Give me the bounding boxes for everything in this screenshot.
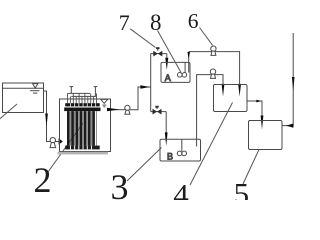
wire tank1 outlet [44,91,51,142]
tank B [160,139,201,161]
electrode clamp bar upper [65,103,100,106]
stirrer tank B [177,151,182,156]
wire valve down into tank B [165,112,167,133]
tank 1 water level symbol [33,84,38,89]
wire pump to cell [56,141,60,143]
svg-text:4: 4 [173,177,189,200]
riser pipe [150,54,152,112]
pump P2 [125,105,130,110]
svg-text:7: 7 [119,10,130,35]
terminal post left [70,87,72,94]
electrode plates [67,111,95,146]
leader line label 8 [158,31,182,73]
leader line label 3 [127,148,162,182]
stirrer shaft tank B [181,139,183,151]
bus bar lower [71,95,96,97]
bus bar upper [68,92,91,94]
suction pipe tank A [188,52,190,73]
flow arrow into tank 4 left [222,84,225,97]
flow arrow right [256,100,261,103]
leader line label 1 (cropped) [0,104,17,120]
svg-text:6: 6 [188,9,199,33]
external feed pipe [282,33,293,126]
tank A [161,62,190,82]
flow arrow into tank B [165,132,168,146]
stirrer tank A [178,73,183,78]
electrode clamp bar lower [64,108,100,112]
leader line label 4 [190,103,233,186]
flow arrow into tank A [165,58,168,70]
wire tank4 to tank5 [247,101,262,116]
flow arrow down on feed pipe [292,77,295,91]
wire riser to valve B [151,111,167,113]
pump P1 [50,138,55,143]
membrane separators [70,111,96,146]
electrode hanger wires [68,93,97,103]
tank 1 water level line [3,87,44,89]
flow arrow into cell 2 [59,138,63,145]
suction pipe tank B to pump [197,75,223,147]
valve V7 [153,51,158,57]
leader line label 5 [243,150,259,185]
cell 2 water level symbol [101,99,108,103]
pump P6 [211,46,216,51]
leader line label 2 [48,123,83,172]
leader line label 6 [200,28,213,46]
svg-text:5: 5 [234,176,250,200]
svg-text:8: 8 [150,10,162,35]
flow arrow left into tank 5 [286,124,293,128]
pump P9 [210,69,215,74]
flow arrow down on tank1 outlet [45,114,48,128]
cell bottom shadow [58,152,109,155]
wire riser to valve 7 [151,53,167,55]
svg-text:3: 3 [111,167,129,200]
tank 4 [214,85,248,112]
svg-text:2: 2 [34,160,52,200]
svg-text:B: B [167,152,173,162]
flow arrow into tank 4 right [238,84,241,97]
electrolysis cell tank 2 [60,99,111,152]
wire cell 2 outlet [111,109,126,111]
leader line label 7 [130,29,155,48]
wire pump6 line [189,52,240,85]
wire pump P2 to riser [130,87,151,110]
tank 5 [249,121,283,150]
flow arrow into tank 5 [261,116,264,130]
terminal post right [94,87,96,97]
wire valve 7 down into tank A [166,54,168,59]
tank 1 [3,83,44,113]
valve V2 [153,109,158,115]
flow arrow right to riser [140,85,150,88]
electrode clamp bar bottom [65,146,100,150]
svg-text:A: A [165,73,171,83]
flow arrow right on cell outlet [107,108,120,111]
